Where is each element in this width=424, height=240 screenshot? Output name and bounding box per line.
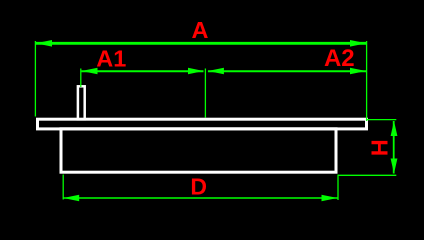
dimension H bottom arrow — [391, 159, 398, 174]
wire: extension line left of dimension D — [62, 175, 64, 200]
dimension A2 line — [208, 70, 366, 72]
svg-text:A2: A2 — [324, 45, 355, 72]
wire: center extension line shared by A1 / A2 — [204, 69, 206, 118]
dimension D line — [63, 197, 337, 199]
dimension D right arrow — [322, 195, 338, 202]
wire: bottom extension line of dimension H — [338, 174, 396, 176]
dimension A2 left arrow — [208, 68, 224, 75]
dimension A2 right arrow — [350, 68, 366, 75]
wire: extension line right of dimension A / A2 — [366, 41, 368, 121]
wire: top extension line of dimension H — [367, 119, 397, 121]
svg-text:D: D — [190, 173, 207, 199]
dimension D left arrow — [63, 195, 79, 202]
svg-text:A: A — [192, 17, 209, 43]
dimension A1 left arrow — [82, 68, 98, 75]
dimension H line — [393, 121, 395, 174]
svg-text:A1: A1 — [96, 45, 126, 71]
dimension A1 line — [82, 70, 204, 72]
dimension A left arrow — [36, 40, 52, 47]
wire: extension line right of dimension D — [337, 175, 339, 201]
pin (small stud on top of plate) — [78, 86, 85, 119]
svg-text:H: H — [367, 139, 393, 156]
dimension A right arrow — [350, 40, 366, 47]
dimension H top arrow — [391, 121, 398, 136]
wire: extension line at pin for dimension A1 — [80, 69, 82, 88]
body (lower block outline) — [61, 129, 336, 172]
plate (top mounting flange outline) — [38, 119, 367, 129]
dimension A line — [36, 42, 366, 45]
dimension A1 right arrow — [188, 68, 204, 75]
wire: extension line left of dimension A — [34, 41, 36, 117]
